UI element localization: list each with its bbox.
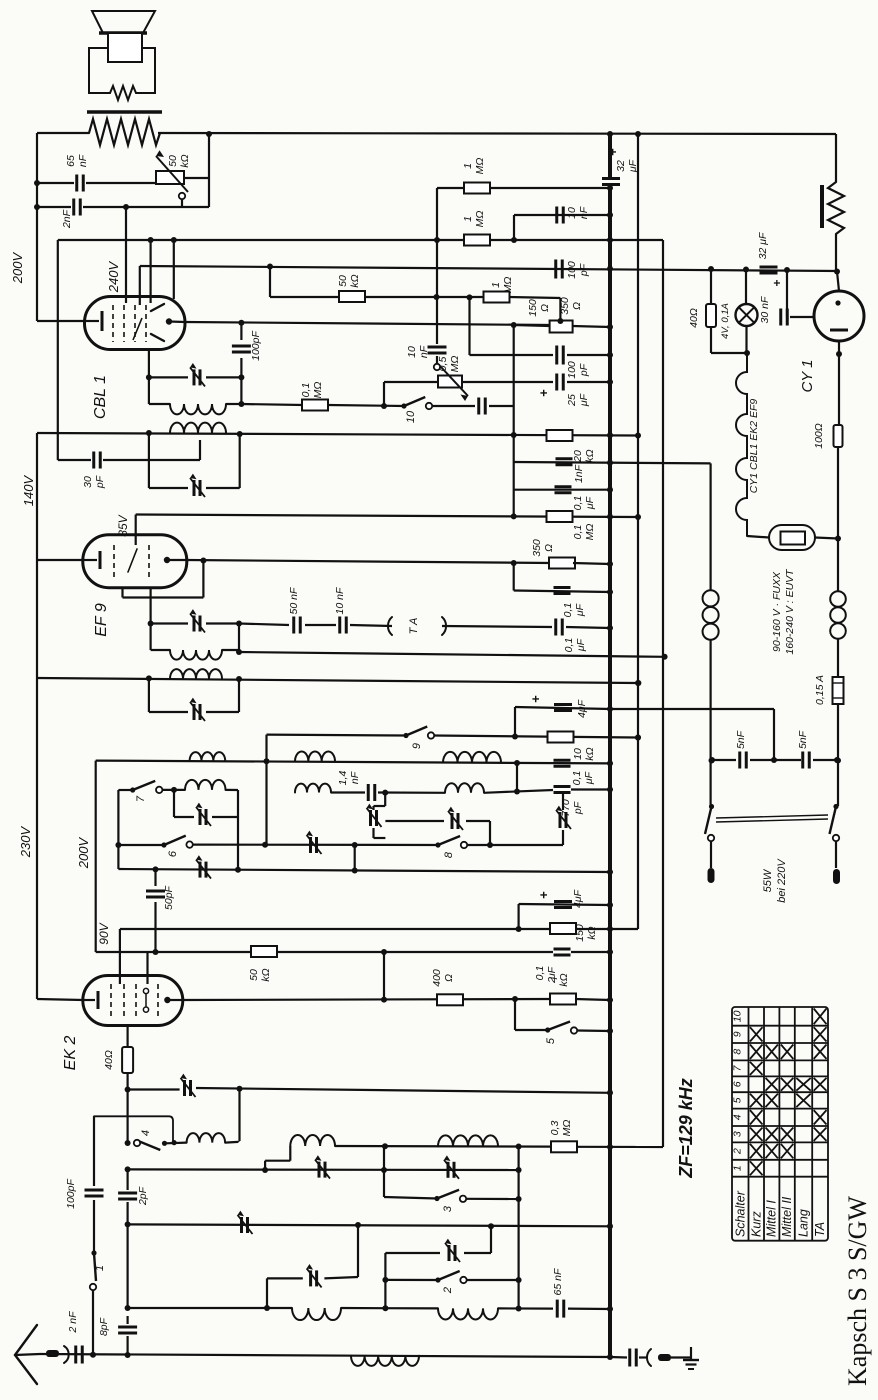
- trimmer on y=869: [199, 862, 202, 878]
- switch 8: [435, 842, 440, 847]
- wire y=652 to rail: [239, 652, 665, 657]
- coil (band) A: [190, 752, 226, 761]
- svg-text:50 nF: 50 nF: [288, 587, 300, 614]
- svg-text:150: 150: [527, 299, 539, 317]
- svg-text:5: 5: [732, 1097, 744, 1103]
- svg-text:0,1: 0,1: [571, 771, 583, 786]
- svg-text:Ω: Ω: [543, 544, 555, 552]
- coil IF2 primary: [149, 403, 170, 405]
- wire x=239.5 down: [238, 1089, 240, 1141]
- capacitor 1.4nF: [367, 784, 370, 801]
- switch coupling link: [716, 815, 828, 818]
- svg-text:10: 10: [405, 410, 417, 423]
- node junction bus top: [607, 131, 613, 137]
- wire y=821: [385, 820, 444, 822]
- antenna: [15, 1325, 37, 1384]
- svg-text:kΩ: kΩ: [584, 449, 596, 462]
- svg-text:140V: 140V: [21, 474, 36, 506]
- wire feedback y=183: [37, 182, 74, 184]
- EK2 cathode: [83, 999, 95, 1001]
- svg-text:+: +: [528, 695, 543, 703]
- wire y=266 g feed: [140, 266, 837, 271]
- wire 0.1uF row y=489: [513, 462, 515, 516]
- svg-text:200V: 200V: [10, 251, 25, 284]
- wire y=514 screen line: [136, 515, 638, 518]
- svg-text:1,4: 1,4: [337, 771, 349, 786]
- coil IF1 secondary: [170, 669, 222, 679]
- resistor 20kOhm: [547, 430, 573, 441]
- capacitor 32uF (y=271): [760, 266, 778, 269]
- coil (osc) D: [438, 1135, 498, 1146]
- svg-text:100: 100: [566, 361, 578, 379]
- svg-text:μF: μF: [578, 393, 590, 407]
- rail x=638: [637, 134, 639, 929]
- trimmer y=1169 a: [318, 1162, 321, 1178]
- svg-text:7: 7: [135, 795, 147, 802]
- wire y=1277 trimmer: [267, 1277, 303, 1279]
- svg-text:MΩ: MΩ: [449, 356, 461, 373]
- svg-text:100pF: 100pF: [250, 331, 262, 361]
- svg-text:ZF=129 kHz: ZF=129 kHz: [676, 1078, 696, 1179]
- capacitor 8pF: [118, 1326, 137, 1329]
- mains transformer right leg: [830, 591, 846, 607]
- svg-text:90V: 90V: [97, 922, 111, 944]
- capacitor 30pF centre tap: [58, 459, 91, 461]
- wire y=735 switch9 line: [267, 733, 407, 736]
- svg-text:25: 25: [566, 394, 578, 407]
- svg-text:10: 10: [572, 748, 584, 760]
- capacitor 100pF (osc): [85, 1189, 104, 1192]
- svg-text:1: 1: [732, 1165, 744, 1171]
- svg-text:40Ω: 40Ω: [688, 308, 700, 328]
- bus HT rail x=610: [608, 134, 612, 177]
- wire CBL1 grid1 feed: [125, 207, 127, 303]
- wire EF9 cathode to 140V rail: [37, 559, 83, 561]
- wire y=952: [96, 951, 553, 953]
- table X marks: [750, 1009, 827, 1176]
- node y240 feeds: [148, 237, 154, 243]
- svg-text:μF: μF: [574, 603, 586, 617]
- coil IF2 secondary: [170, 423, 226, 433]
- svg-text:kΩ: kΩ: [586, 926, 598, 939]
- svg-text:CY 1: CY 1: [799, 359, 816, 392]
- svg-text:2: 2: [546, 977, 558, 984]
- svg-text:0,1: 0,1: [534, 966, 546, 981]
- wire y=1146 to 0.3M: [335, 1145, 552, 1148]
- svg-text:10 nF: 10 nF: [334, 587, 346, 614]
- pot wiper contact: [179, 193, 185, 199]
- resistor 0.3MOhm: [551, 1141, 577, 1152]
- wire x=384 down from y=952: [383, 952, 385, 1000]
- coil (band) D: [445, 783, 484, 793]
- EK2 anode wire y=1000: [183, 999, 551, 1000]
- resistor 150/350 Ohm tapped: [550, 321, 573, 333]
- capacitor 10nF (TA): [305, 624, 336, 626]
- svg-text:+: +: [536, 891, 551, 899]
- mains transformer left leg: [709, 463, 711, 590]
- capacitor to chassis: [610, 1356, 627, 1359]
- capacitor 50nF: [239, 624, 289, 626]
- wire y=869: [118, 869, 610, 872]
- switch 9: [403, 733, 408, 738]
- svg-text:Ω: Ω: [443, 974, 455, 982]
- svg-text:2pF: 2pF: [137, 1186, 149, 1206]
- svg-text:200V: 200V: [76, 836, 91, 869]
- svg-text:EF 9: EF 9: [93, 603, 110, 637]
- svg-text:160-240 V : EUVT: 160-240 V : EUVT: [784, 568, 796, 655]
- wire HT top rail y=133: [37, 132, 89, 134]
- svg-text:50: 50: [248, 969, 260, 981]
- node grid feed: [123, 204, 129, 210]
- svg-text:Kapsch S 3 S/GW: Kapsch S 3 S/GW: [843, 1196, 872, 1386]
- resistor 1MOhm (on y=240): [464, 235, 490, 246]
- trimmer on 1.4nF branch: [384, 793, 386, 806]
- svg-text:μF: μF: [584, 496, 596, 510]
- svg-text:50pF: 50pF: [163, 885, 175, 910]
- svg-text:3: 3: [442, 1205, 454, 1212]
- svg-text:Ω: Ω: [571, 302, 583, 310]
- capacitor 5nF b: [801, 752, 804, 769]
- switch 4: [125, 1140, 131, 1146]
- capacitor 770pF: [554, 785, 571, 788]
- EK2 grid feed x=147.5: [146, 952, 148, 984]
- wire anode y=322: [185, 322, 550, 325]
- mains dropper resistor: [835, 134, 837, 182]
- fuse 0.15A: [833, 677, 844, 704]
- coil IF1 primary: [151, 649, 170, 651]
- lamp 4V 0.1A: [710, 269, 712, 304]
- wire y=240: [58, 239, 663, 241]
- wire y=297: [270, 296, 340, 298]
- svg-text:6: 6: [167, 850, 179, 857]
- wire to switch 10: [328, 405, 404, 406]
- svg-text:55W: 55W: [762, 868, 774, 892]
- EF9 grid feed: [135, 515, 137, 546]
- svg-text:Mittel II: Mittel II: [780, 1196, 794, 1237]
- mains switch a: [709, 804, 714, 809]
- heater chain: [736, 353, 747, 536]
- EF9 grids dashed: [113, 545, 115, 579]
- capacitor 4uF (y=905): [517, 904, 519, 929]
- coil (band) B: [295, 752, 335, 762]
- svg-text:2nF: 2nF: [61, 209, 73, 229]
- svg-text:1: 1: [462, 163, 474, 169]
- svg-text:10: 10: [732, 1010, 744, 1022]
- svg-text:pF: pF: [572, 801, 584, 815]
- mains plug pins: [708, 868, 715, 883]
- trimmer IF2 secondary: [148, 433, 150, 488]
- svg-text:T A: T A: [408, 618, 420, 635]
- tube CBL1 envelope: [85, 297, 186, 350]
- resistor 0.1MOhm (to switch 10): [241, 404, 303, 405]
- wire y=433 AVC line: [37, 433, 638, 436]
- svg-text:μF: μF: [583, 771, 595, 785]
- svg-text:0,1: 0,1: [572, 525, 584, 540]
- switch 4 bypass loop: [94, 1116, 173, 1142]
- wire y=271 HT: [834, 269, 840, 275]
- wire y=678: [37, 678, 638, 683]
- node top-left corner: [36, 133, 38, 183]
- wire y=792 second coil line: [295, 784, 331, 793]
- capacitor 32uF (top, on bus): [602, 177, 620, 180]
- switch 5: [514, 999, 516, 1030]
- resistor 50kOhm (y=952): [251, 946, 277, 957]
- jog to coil B: [264, 1161, 266, 1170]
- resistor 1MOhm (top): [464, 183, 490, 194]
- capacitor 30nF: [786, 270, 788, 317]
- capacitor 2pF: [118, 1192, 137, 1195]
- svg-text:0,1: 0,1: [300, 383, 312, 398]
- wire 100pF row y=355: [468, 297, 470, 355]
- wire y=1308 oscillator tank: [128, 1307, 292, 1309]
- resistor 0.1MOhm (y=516): [547, 511, 573, 522]
- trimmer y=1169 b: [447, 1162, 450, 1178]
- svg-text:350: 350: [559, 297, 571, 315]
- capacitor 10nF (switch 10): [432, 405, 475, 407]
- svg-text:MΩ: MΩ: [584, 524, 596, 541]
- vertical x=267: [266, 1278, 268, 1308]
- svg-text:350: 350: [531, 539, 543, 557]
- band loop 7 trimmer: [173, 790, 175, 817]
- switch 3 row: [384, 1197, 437, 1199]
- wire EK2 cathode to 230V rail: [37, 999, 83, 1000]
- svg-text:kΩ: kΩ: [584, 747, 596, 760]
- CBL1 grids (dashed): [112, 305, 114, 342]
- svg-text:1: 1: [462, 216, 474, 222]
- svg-text:4V, 0,1A: 4V, 0,1A: [720, 303, 731, 339]
- svg-text:Schalter: Schalter: [733, 1190, 747, 1237]
- svg-text:32: 32: [615, 160, 627, 172]
- trimmer (IF2 primary): [148, 349, 150, 404]
- svg-text:0,1: 0,1: [562, 603, 574, 618]
- svg-text:nF: nF: [578, 206, 590, 219]
- resistor 150kOhm: [550, 923, 576, 934]
- ground: [671, 1356, 691, 1358]
- output transformer T1 primary winding: [89, 119, 160, 145]
- pickup jack TA: [388, 617, 392, 635]
- wire CBL1 cathode to rail: [37, 320, 85, 322]
- capacitor 0.1uF (y=952): [554, 948, 571, 951]
- svg-text:10: 10: [406, 346, 418, 358]
- svg-text:9: 9: [732, 1031, 744, 1037]
- capacitor 100pF (anode): [240, 323, 242, 340]
- svg-text:10: 10: [566, 207, 578, 219]
- svg-text:MΩ: MΩ: [312, 382, 324, 399]
- svg-text:4μF: 4μF: [576, 699, 588, 718]
- svg-text:65 nF: 65 nF: [552, 1268, 564, 1295]
- node x=270: [267, 264, 273, 270]
- svg-text:+: +: [770, 279, 784, 286]
- wire 1nF row y=462: [513, 436, 515, 463]
- svg-text:0,1: 0,1: [572, 496, 584, 511]
- capacitor 10nF (top): [555, 207, 558, 224]
- svg-text:5nF: 5nF: [797, 730, 809, 749]
- svg-text:1: 1: [490, 282, 502, 288]
- trimmer y=1226 (antenna): [240, 1217, 243, 1233]
- switch position table: [732, 1007, 828, 1241]
- oscillator trimmer y=1089: [128, 1088, 180, 1090]
- capacitor 0.1uF (y=763): [554, 759, 571, 762]
- capacitor 2nF: [72, 199, 75, 216]
- EF9 screen loop: [202, 561, 204, 598]
- svg-text:0,3: 0,3: [549, 1121, 561, 1136]
- svg-text:32 μF: 32 μF: [757, 232, 769, 259]
- wire bottom y=1355: [40, 1354, 610, 1357]
- svg-text:Mittel I: Mittel I: [765, 1200, 779, 1237]
- wire 0.1uF row y=590: [513, 563, 515, 591]
- EF9 cathode: [83, 559, 97, 561]
- svg-text:pF: pF: [578, 263, 590, 277]
- output transformer T1 core: [87, 110, 162, 114]
- coil (osc) B: [290, 1135, 335, 1146]
- switch 1: [91, 1250, 96, 1255]
- svg-text:50: 50: [167, 155, 179, 167]
- capacitor 100pF (series in y=266 wire): [554, 260, 557, 279]
- capacitor 0.1uF (y=627): [554, 619, 557, 636]
- CBL1 anode: [166, 318, 172, 324]
- vertical x=384 (osc): [383, 1146, 385, 1197]
- wire y=762 coil line: [96, 761, 610, 764]
- mains switch b: [833, 804, 838, 809]
- svg-text:100: 100: [566, 261, 578, 279]
- wire 25uF row y=382: [462, 381, 553, 383]
- mains voltage adaptor plug EUVT: [747, 536, 769, 538]
- pot 0.5MOhm: [384, 381, 438, 383]
- svg-text:kΩ: kΩ: [260, 968, 272, 981]
- svg-text:30 nF: 30 nF: [759, 296, 771, 323]
- coil antenna (bottom): [351, 1356, 419, 1366]
- svg-text:3: 3: [732, 1131, 744, 1137]
- switch 2 row: [384, 1253, 386, 1308]
- node junction x=209: [206, 131, 212, 137]
- svg-text:100Ω: 100Ω: [813, 423, 825, 449]
- svg-text:pF: pF: [94, 475, 106, 489]
- capacitor 65nF: [75, 175, 78, 192]
- resistor 2kOhm: [550, 994, 576, 1005]
- wire y=1226: [128, 1224, 610, 1226]
- wire y=188 to bus: [437, 187, 610, 189]
- capacitor 2nF (antenna): [74, 1346, 77, 1364]
- capacitor 4uF (y=707): [514, 707, 516, 737]
- wire TA to bus: [442, 626, 552, 627]
- svg-text:kΩ: kΩ: [349, 274, 361, 287]
- svg-text:50: 50: [337, 275, 349, 287]
- CBL1 cathode: [85, 320, 100, 322]
- wire CBL1 diode feed x=173.8: [173, 240, 175, 299]
- svg-text:TA: TA: [813, 1222, 827, 1237]
- svg-text:pF: pF: [578, 363, 590, 377]
- wire y=1169: [128, 1168, 519, 1171]
- svg-text:+: +: [536, 389, 551, 397]
- capacitor 65nF: [556, 1300, 559, 1318]
- svg-text:MΩ: MΩ: [474, 211, 486, 228]
- CBL1 diode plates: [151, 304, 164, 311]
- svg-text:kΩ: kΩ: [558, 973, 570, 986]
- svg-text:MΩ: MΩ: [474, 158, 486, 175]
- wire y=929 screen EK2: [120, 928, 610, 930]
- svg-text:2: 2: [442, 1287, 454, 1294]
- svg-text:8pF: 8pF: [98, 1317, 110, 1336]
- resistor 400 Ohm: [437, 994, 463, 1005]
- trimmer on y=845: [309, 837, 312, 853]
- svg-text:400: 400: [431, 969, 443, 987]
- svg-text:Ω: Ω: [539, 304, 551, 312]
- svg-text:90-160 V · FUXX: 90-160 V · FUXX: [771, 571, 783, 652]
- wire y=709 to mains: [610, 708, 774, 710]
- svg-text:0,1: 0,1: [563, 638, 575, 653]
- EK2 injection grid contacts: [143, 988, 148, 993]
- trimmer below 770pF: [562, 793, 564, 810]
- band loop 7 coil: [162, 789, 185, 791]
- coil (osc) E: [292, 1308, 341, 1320]
- resistor 40 Ohm (EK2 cathode bias): [126, 1025, 128, 1048]
- svg-text:4: 4: [732, 1114, 744, 1120]
- svg-text:4μF: 4μF: [572, 889, 584, 908]
- svg-text:MΩ: MΩ: [561, 1120, 573, 1137]
- svg-text:kΩ: kΩ: [179, 154, 191, 167]
- svg-text:6: 6: [732, 1081, 744, 1087]
- svg-text:4: 4: [140, 1130, 152, 1136]
- capacitor 0.1uF (y=489): [555, 485, 572, 488]
- svg-text:0,15 A: 0,15 A: [814, 675, 826, 705]
- resistor 350 Ohm (y=563): [549, 558, 575, 569]
- svg-text:30: 30: [82, 476, 94, 488]
- svg-text:8: 8: [732, 1049, 744, 1055]
- rail x=663 down: [662, 240, 664, 1147]
- wire 350 tap to bus: [514, 325, 550, 326]
- svg-text:nF: nF: [77, 154, 89, 167]
- svg-text:2 nF: 2 nF: [67, 1311, 79, 1334]
- EK2 grids dashed: [110, 984, 112, 1017]
- wire y=207: [37, 206, 71, 208]
- svg-text:EK 2: EK 2: [62, 1036, 79, 1071]
- resistor 100 Ohm: [838, 354, 840, 426]
- svg-text:2: 2: [732, 1148, 744, 1155]
- svg-text:+: +: [605, 148, 620, 156]
- svg-text:Lang: Lang: [797, 1209, 811, 1237]
- svg-text:Kurz: Kurz: [749, 1211, 763, 1237]
- switch contact 10: [401, 403, 406, 408]
- svg-text:150: 150: [574, 924, 586, 942]
- capacitor 10nF (0.5M top): [436, 240, 438, 344]
- svg-text:240V: 240V: [106, 260, 121, 293]
- svg-text:nF: nF: [349, 771, 361, 784]
- EK2 anode: [164, 997, 170, 1003]
- trimmer IF1 secondary: [148, 678, 150, 712]
- resistor 1MOhm (y=297): [484, 292, 510, 303]
- wire pot to node: [184, 177, 209, 179]
- wire x=513.7 column: [513, 325, 515, 436]
- switch 7: [118, 789, 132, 791]
- oscillator coil (switch 4): [187, 1133, 225, 1142]
- vertical x=518.6 (osc): [517, 1147, 519, 1310]
- svg-text:1nF: 1nF: [573, 464, 585, 483]
- capacitor 5nF a: [712, 759, 736, 761]
- rail 200V x=95.7: [95, 761, 97, 952]
- svg-text:1: 1: [94, 1265, 106, 1271]
- wire CBL1 feed x=150.6: [150, 240, 152, 303]
- wire y=215 10nF: [514, 214, 610, 216]
- svg-text:0,5: 0,5: [437, 357, 449, 372]
- svg-text:65: 65: [65, 155, 77, 167]
- svg-text:MΩ: MΩ: [502, 277, 514, 294]
- resistor 50kOhm: [339, 291, 365, 302]
- wire trimmer row y=623.5: [150, 588, 152, 651]
- EF9 anode: [164, 557, 170, 563]
- svg-text:5: 5: [545, 1037, 557, 1044]
- coil (band) C long: [443, 752, 501, 763]
- coil (osc) F: [438, 1308, 498, 1319]
